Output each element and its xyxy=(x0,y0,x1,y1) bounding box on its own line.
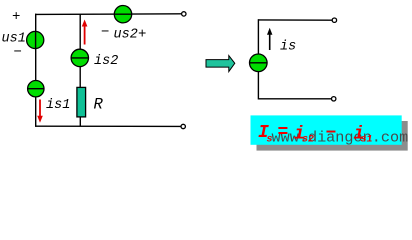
svg-text:−: − xyxy=(326,123,337,143)
wire: left vertical branch xyxy=(35,14,37,127)
resistor R xyxy=(77,87,86,117)
arrow: is current direction (black, up) xyxy=(267,28,272,50)
svg-text:is1: is1 xyxy=(46,98,70,113)
voltage source us2 xyxy=(114,6,131,23)
wire: right circuit left vertical xyxy=(257,19,259,99)
arrow: is2 current direction (red, up) xyxy=(82,20,88,45)
wire: left circuit bottom horizontal xyxy=(35,125,181,127)
svg-text:is: is xyxy=(280,40,296,55)
arrow: is1 current direction (red, down) xyxy=(37,100,43,123)
svg-text:R: R xyxy=(94,96,104,114)
svg-text:−: − xyxy=(14,44,22,60)
wire: middle branch below R xyxy=(79,117,81,127)
svg-text:www.diangon.com: www.diangon.com xyxy=(272,129,409,147)
terminal: left circuit bottom right open node xyxy=(181,124,185,128)
formula box shadow xyxy=(257,121,408,151)
wire: right circuit top horizontal xyxy=(258,19,332,21)
svg-text:s1: s1 xyxy=(361,135,373,146)
symbol: equivalence block arrow xyxy=(206,56,235,72)
svg-text:=: = xyxy=(278,123,289,143)
wire: right circuit bottom horizontal xyxy=(258,98,331,100)
voltage source us1 xyxy=(27,31,44,48)
wire: middle branch between is2 and R xyxy=(79,66,81,87)
svg-text:−: − xyxy=(101,25,109,41)
current source is1 xyxy=(28,81,44,97)
wire: left circuit top horizontal xyxy=(35,13,181,16)
current source is (equivalent) xyxy=(249,54,267,72)
svg-text:+: + xyxy=(12,9,20,25)
svg-text:+: + xyxy=(138,27,146,43)
svg-text:s: s xyxy=(267,134,273,145)
current source is2 xyxy=(71,49,88,66)
formula: Is = is2 - is1 xyxy=(258,123,373,146)
formula box xyxy=(251,115,402,144)
terminal: left circuit top right open node xyxy=(182,12,186,16)
wire: middle branch upper segment xyxy=(79,14,81,49)
svg-text:us2: us2 xyxy=(114,28,138,43)
svg-text:s2: s2 xyxy=(302,135,314,146)
svg-text:is2: is2 xyxy=(94,54,118,69)
terminal: right circuit top open node xyxy=(332,18,336,22)
terminal: right circuit bottom open node xyxy=(332,97,336,101)
